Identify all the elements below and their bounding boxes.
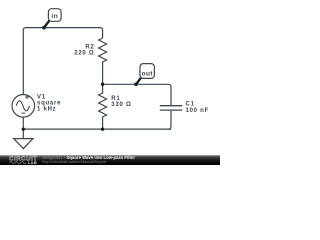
wire: middle horizontal (node out, rounded corner into C1)	[103, 84, 171, 105]
ground	[14, 129, 33, 148]
junction dot: node out (R2/R1 junction)	[101, 83, 104, 86]
resistor R1	[99, 84, 107, 129]
svg-text:LAB: LAB	[28, 160, 37, 165]
flag "in"	[42, 9, 61, 30]
svg-text:out: out	[142, 70, 154, 77]
svg-text:http://circuitlab.com/c/x8sudr: http://circuitlab.com/c/x8sudre2/qnpd	[42, 160, 106, 164]
wire: left vertical lower (V1 bottom to ground node)	[22, 117, 24, 129]
wire: node in (V1 top, rounded corners, to R2 top)	[23, 28, 102, 95]
svg-text:in: in	[51, 13, 58, 20]
svg-text:V1: V1	[37, 94, 46, 100]
resistor R2	[99, 38, 107, 84]
footer bar	[0, 155, 220, 165]
svg-text:220 Ω: 220 Ω	[74, 51, 94, 57]
svg-text:C1: C1	[186, 102, 195, 108]
svg-text:330 Ω: 330 Ω	[111, 102, 131, 108]
flag "out"	[134, 64, 154, 87]
voltage source V1	[12, 95, 35, 118]
svg-text:square: square	[37, 101, 61, 107]
wire: bottom horizontal (ground net)	[23, 128, 171, 130]
svg-text:100 nF: 100 nF	[186, 108, 210, 114]
CircuitLab logo wave	[10, 162, 27, 164]
junction dot: V1 to ground net	[22, 127, 25, 130]
junction dot: R1 bottom on ground net	[101, 127, 104, 130]
capacitor C1	[160, 106, 182, 129]
svg-text:1 kHz: 1 kHz	[37, 107, 56, 113]
